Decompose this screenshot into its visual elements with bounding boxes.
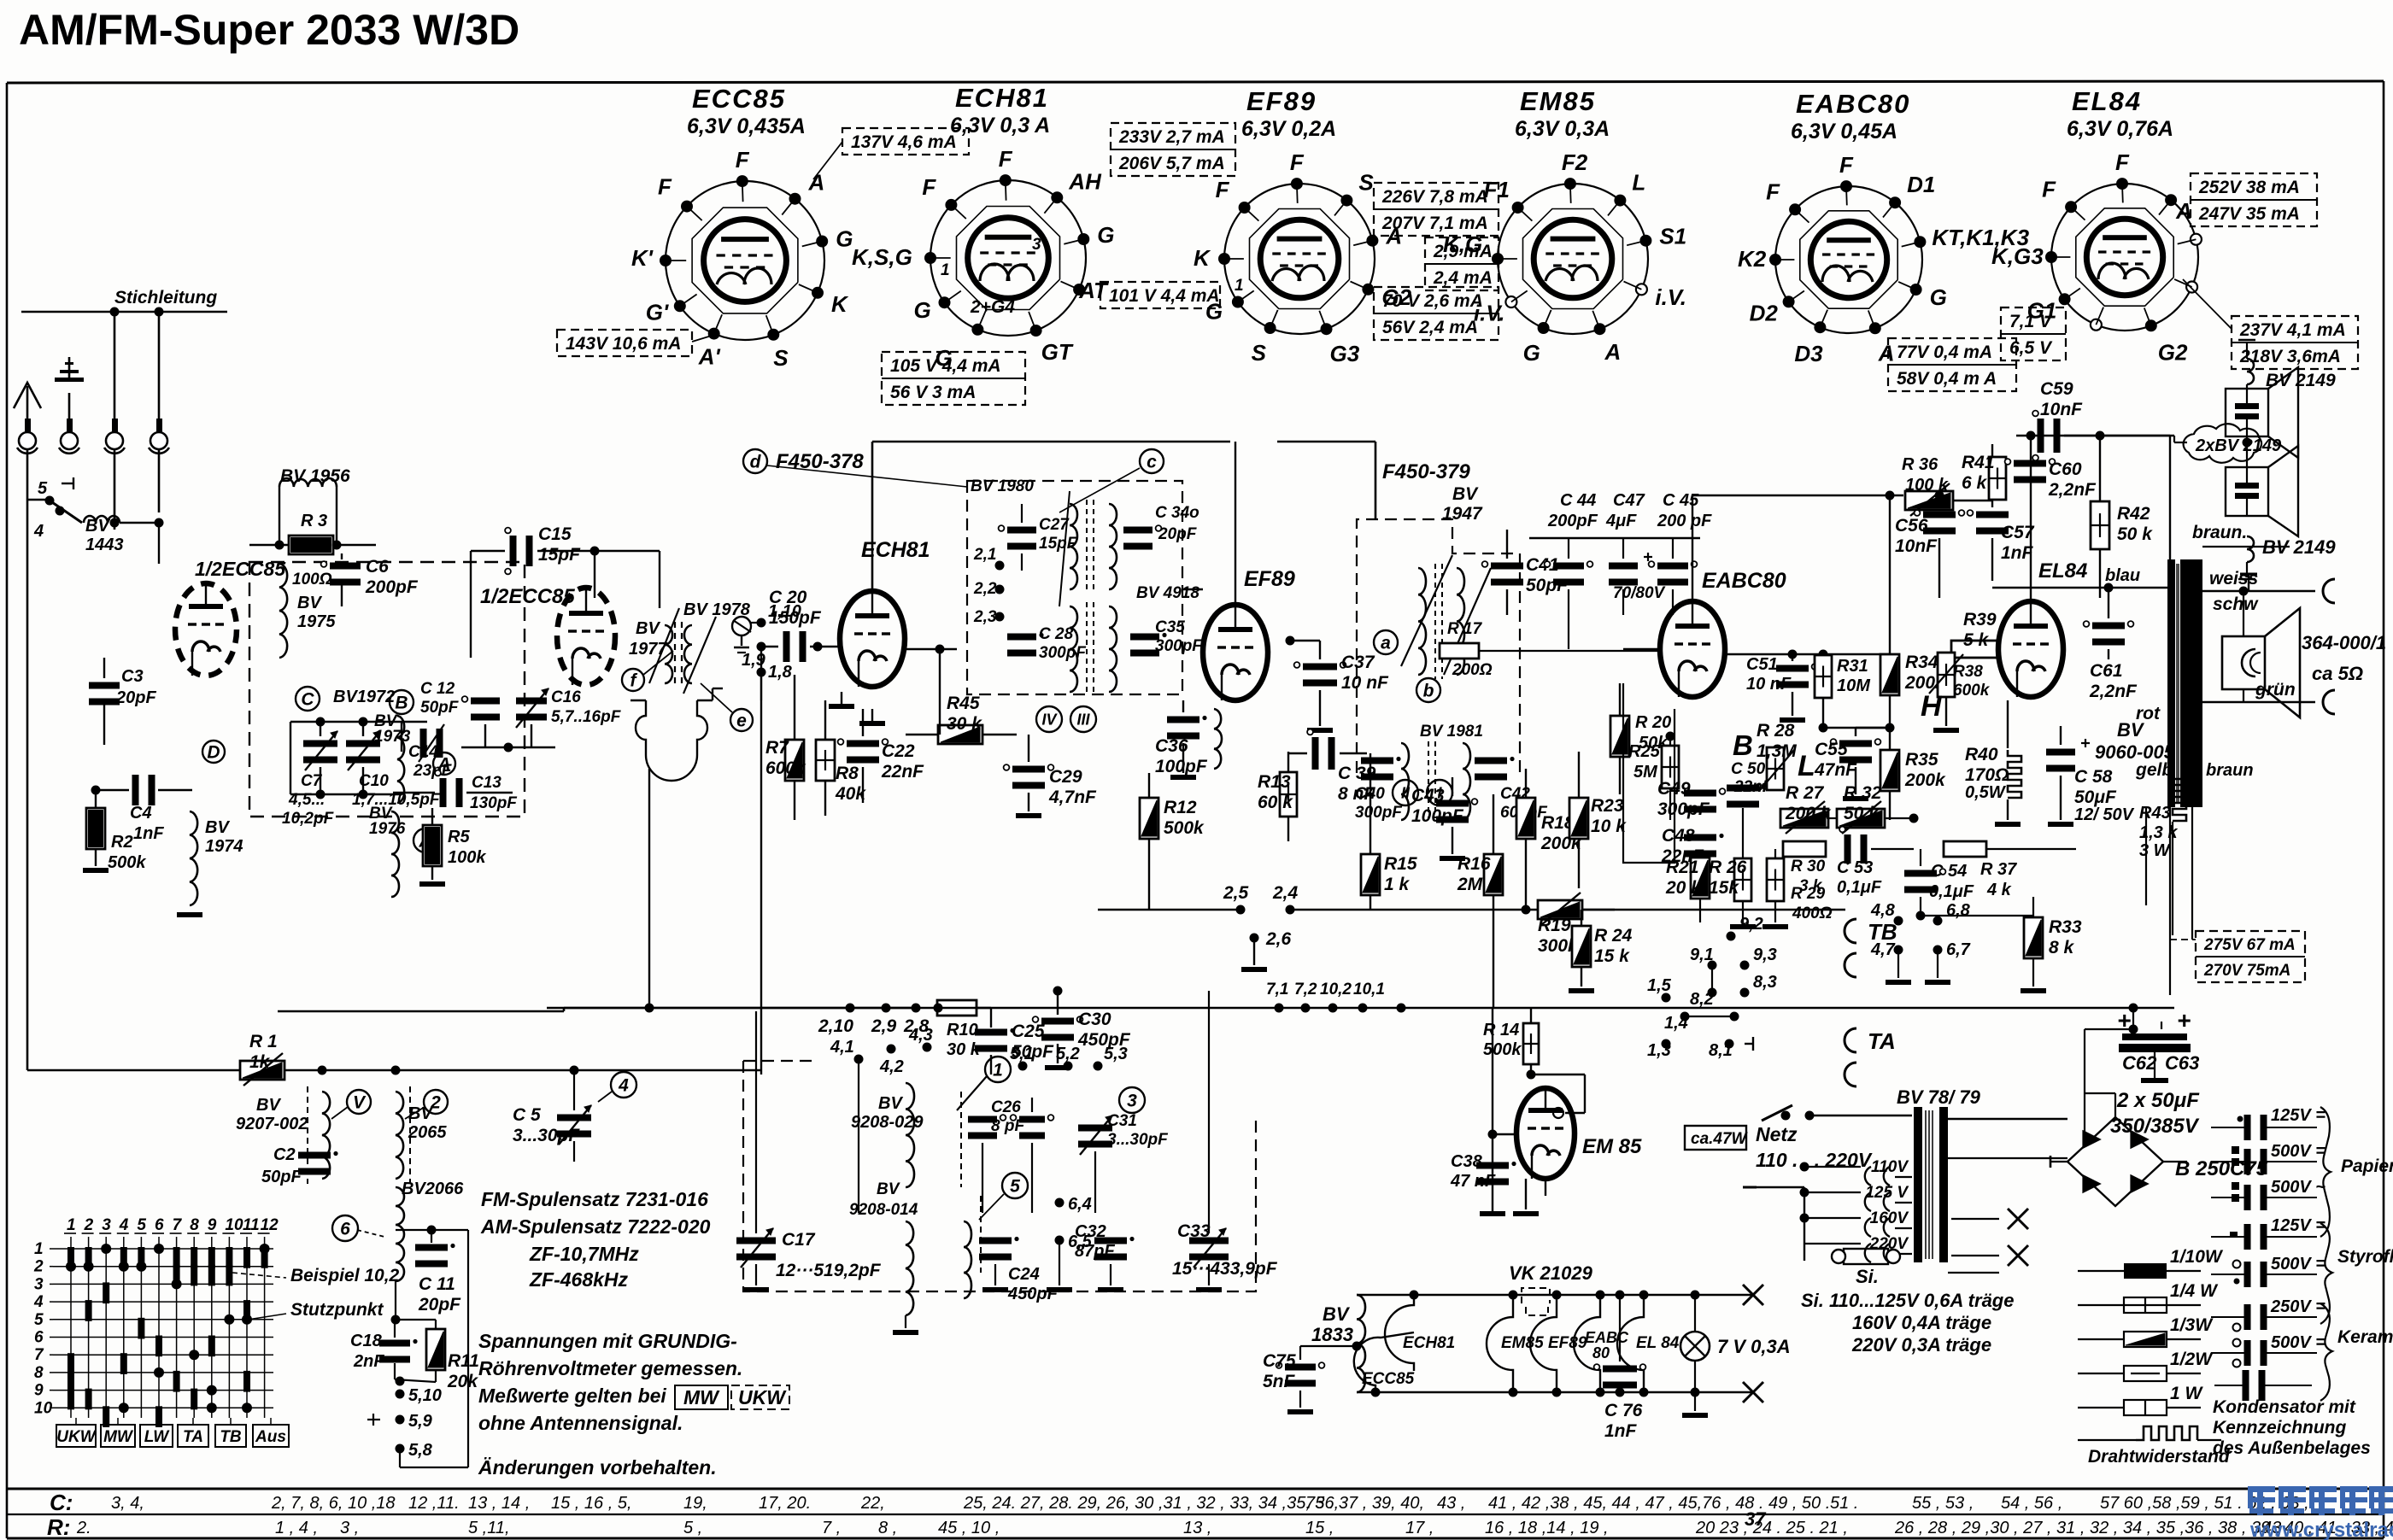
wire jack3/4 down bbox=[114, 449, 116, 530]
svg-text:2065: 2065 bbox=[408, 1123, 447, 1142]
svg-text:2M: 2M bbox=[1457, 875, 1483, 894]
tube EL84 bbox=[1998, 601, 2063, 697]
tube pinout EM85 pin S1 bbox=[1639, 235, 1651, 247]
svg-text:6,3V 0,3 A: 6,3V 0,3 A bbox=[950, 114, 1050, 138]
svg-text:125V =: 125V = bbox=[2271, 1106, 2326, 1125]
resistor R45 30k bbox=[938, 725, 982, 744]
svg-text:5,10: 5,10 bbox=[408, 1386, 442, 1405]
svg-text:C48: C48 bbox=[1662, 826, 1695, 846]
antenna jack 3 bbox=[112, 419, 118, 434]
svg-text:C32: C32 bbox=[1075, 1222, 1106, 1241]
svg-text:B: B bbox=[395, 693, 408, 712]
svg-text:G: G bbox=[1930, 284, 1947, 310]
F450-379 primary coil bbox=[1418, 568, 1426, 675]
X mark heater 2 bbox=[1743, 1382, 1763, 1402]
svg-text:R 20: R 20 bbox=[1635, 713, 1671, 732]
resistor R42 50k bbox=[2091, 501, 2109, 549]
ground antenna symbol bbox=[68, 393, 71, 419]
wire blau bbox=[1992, 587, 2170, 588]
svg-text:2,2nF: 2,2nF bbox=[2089, 682, 2138, 701]
transformer BV1978 core bbox=[674, 622, 676, 688]
svg-text:C 44: C 44 bbox=[1560, 491, 1596, 510]
tube pinout EL84 pin nc bbox=[2191, 234, 2202, 245]
bus to C62 bbox=[2033, 1007, 2174, 1009]
svg-text:R2: R2 bbox=[111, 833, 133, 852]
svg-text:TA: TA bbox=[1868, 1028, 1896, 1054]
svg-text:5: 5 bbox=[1010, 1176, 1020, 1196]
svg-text:220V 0,3A träge: 220V 0,3A träge bbox=[1851, 1334, 1991, 1356]
svg-text:275V 67 mA: 275V 67 mA bbox=[2203, 936, 2296, 954]
tube pinout EF89 pin G2 bbox=[1362, 284, 1374, 296]
svg-text:A: A bbox=[1604, 339, 1622, 365]
svg-text:9: 9 bbox=[208, 1216, 217, 1234]
tube 1/2 ECC85 first half bbox=[175, 583, 237, 676]
svg-text:3: 3 bbox=[102, 1216, 111, 1234]
svg-text:105 V 4,4 mA: 105 V 4,4 mA bbox=[890, 356, 1001, 376]
wire rot bbox=[2145, 807, 2147, 905]
antenna symbol at BV1978 bbox=[732, 617, 751, 635]
svg-text:20 23 , 24 . 25 . 21 ,: 20 23 , 24 . 25 . 21 , bbox=[1695, 1519, 1848, 1537]
svg-text:9208-029: 9208-029 bbox=[851, 1113, 924, 1132]
tube pinout EABC80 pin F bbox=[1789, 203, 1801, 215]
capacitor C58 50uF bbox=[2046, 749, 2075, 756]
capacitor small bbox=[1019, 1116, 1045, 1123]
svg-text:2,10: 2,10 bbox=[818, 1016, 853, 1036]
svg-text:rot: rot bbox=[2136, 704, 2161, 723]
svg-text:12/ 50V: 12/ 50V bbox=[2074, 805, 2135, 824]
resistor R36 100k bbox=[1905, 491, 1953, 510]
svg-text:Styroflex: Styroflex bbox=[2337, 1247, 2393, 1267]
power transformer core bbox=[1914, 1107, 1922, 1262]
tube pinout EL84 pin F bbox=[2065, 201, 2077, 213]
tube pinout ECC85 pin A' bbox=[708, 328, 720, 340]
svg-text:F: F bbox=[2042, 176, 2056, 202]
svg-text:15pF: 15pF bbox=[538, 545, 581, 565]
X mark secondary 1 bbox=[2008, 1209, 2028, 1229]
svg-text:R39: R39 bbox=[1963, 610, 1997, 629]
svg-text:L: L bbox=[1632, 170, 1645, 196]
output coil lower bbox=[636, 700, 707, 781]
svg-text:blau: blau bbox=[2105, 566, 2140, 585]
svg-text:R31: R31 bbox=[1837, 657, 1868, 676]
coil BV9207-002 circled V bbox=[322, 1092, 330, 1179]
svg-text:75 . 37 , 39, 40,: 75 . 37 , 39, 40, bbox=[1305, 1494, 1424, 1513]
antenna jack 4 bbox=[156, 419, 162, 434]
svg-text:C 54: C 54 bbox=[1931, 862, 1967, 881]
svg-text:160V: 160V bbox=[1870, 1209, 1909, 1227]
svg-text:4: 4 bbox=[33, 522, 44, 541]
svg-text:19,: 19, bbox=[683, 1494, 707, 1513]
svg-text:R 1: R 1 bbox=[249, 1032, 278, 1051]
svg-text:EL84: EL84 bbox=[2072, 86, 2142, 116]
bus 7,1 line bbox=[547, 1007, 2174, 1010]
svg-text:200 k: 200 k bbox=[1785, 804, 1832, 823]
svg-text:60 k: 60 k bbox=[1258, 793, 1293, 812]
svg-text:1974: 1974 bbox=[205, 837, 243, 856]
tube pinout EF89 pin F bbox=[1291, 178, 1303, 190]
svg-text:110V: 110V bbox=[1871, 1158, 1909, 1176]
svg-text:Keramik: Keramik bbox=[2337, 1327, 2393, 1347]
tube pinout EM85 pin F2 bbox=[1564, 178, 1576, 190]
svg-text:F: F bbox=[922, 174, 936, 200]
legend brace Papier bbox=[2320, 1107, 2331, 1237]
svg-text:C: C bbox=[301, 689, 314, 709]
resistor R33 8k bbox=[2024, 917, 2043, 958]
svg-text:BV1972: BV1972 bbox=[333, 688, 395, 706]
svg-text:braun: braun bbox=[2206, 761, 2254, 780]
svg-text:8,1: 8,1 bbox=[1709, 1041, 1733, 1060]
svg-text:A: A bbox=[1878, 340, 1895, 366]
terminal 6,8 bbox=[1933, 916, 1943, 926]
legend capacitor Papier 500V= bbox=[2244, 1149, 2251, 1174]
wire EL84 anode top bbox=[2030, 436, 2032, 601]
svg-text:EM85: EM85 bbox=[1520, 86, 1596, 116]
tube pinout ECC85 pin F bbox=[681, 201, 693, 213]
svg-text:Drahtwiderstand: Drahtwiderstand bbox=[2088, 1447, 2231, 1467]
parts table lines bbox=[7, 1488, 2384, 1490]
svg-text:6,3V 0,3A: 6,3V 0,3A bbox=[1515, 117, 1610, 141]
svg-text:UKW: UKW bbox=[738, 1386, 787, 1408]
svg-text:1: 1 bbox=[34, 1240, 44, 1258]
tube pinout EL84 base circle bbox=[2051, 184, 2198, 331]
svg-text:C63: C63 bbox=[2165, 1052, 2199, 1074]
svg-text:C 20: C 20 bbox=[769, 588, 807, 607]
svg-text:6,8: 6,8 bbox=[1946, 901, 1971, 920]
svg-text:1/2ECC85: 1/2ECC85 bbox=[195, 558, 286, 580]
svg-text:2,2: 2,2 bbox=[973, 580, 997, 598]
coil BV1956 bbox=[279, 478, 337, 487]
svg-text:30 k: 30 k bbox=[947, 714, 982, 734]
tube pinout EABC80 pin KT,K1,K3 bbox=[1914, 236, 1926, 248]
svg-text:13 ,: 13 , bbox=[1183, 1519, 1211, 1537]
svg-text:C6: C6 bbox=[366, 557, 389, 577]
tube pinout ECH81 pin G bbox=[1077, 233, 1089, 245]
svg-text:1: 1 bbox=[941, 261, 950, 279]
svg-text:TA: TA bbox=[183, 1428, 203, 1446]
svg-text:R45: R45 bbox=[947, 694, 980, 713]
capacitor C60 2,2nF bbox=[2014, 460, 2046, 467]
capacitor C38 47nF bbox=[1476, 1162, 1509, 1169]
voltage box 77V/58V bbox=[1888, 338, 2016, 391]
tube pinout EM85 pin i.V. bbox=[1636, 284, 1647, 295]
resistor R8 40k bbox=[816, 740, 835, 781]
border frame bbox=[7, 81, 2384, 83]
svg-text:D3: D3 bbox=[1794, 341, 1823, 366]
tap T symbol bbox=[2248, 574, 2249, 591]
svg-text:GT: GT bbox=[1041, 339, 1074, 365]
tube pinout EM85 pin F1 bbox=[1512, 202, 1524, 214]
svg-text:ECH81: ECH81 bbox=[955, 83, 1049, 113]
tube pinout ECH81 pin G bbox=[939, 296, 951, 308]
svg-text:1: 1 bbox=[67, 1216, 76, 1234]
voltage box 252V/247V bbox=[2191, 173, 2317, 226]
svg-text:1: 1 bbox=[993, 1060, 1003, 1080]
svg-text:EM 85: EM 85 bbox=[1582, 1135, 1642, 1158]
capacitor C61 2,2nF bbox=[2092, 623, 2125, 629]
svg-text:4: 4 bbox=[119, 1216, 129, 1234]
heater tap EM85 bbox=[1487, 1295, 1513, 1392]
svg-text:c: c bbox=[1147, 452, 1157, 471]
tube pinout EF89 pin F bbox=[1239, 202, 1251, 214]
terminal 1,8 bbox=[757, 668, 766, 677]
svg-text:G: G bbox=[1205, 299, 1223, 325]
svg-text:schw: schw bbox=[2213, 594, 2259, 614]
svg-text:1/10W: 1/10W bbox=[2170, 1247, 2224, 1267]
heater tap ECC85 bbox=[1354, 1332, 1414, 1392]
terminal 6,7 bbox=[1933, 946, 1943, 955]
heater coil BV1833 bbox=[1357, 1295, 1365, 1392]
svg-text:A: A bbox=[808, 170, 825, 196]
svg-text:4,3: 4,3 bbox=[908, 1026, 933, 1045]
svg-text:R15: R15 bbox=[1384, 854, 1417, 874]
svg-text:500k: 500k bbox=[1164, 818, 1205, 838]
tube pinout ECC85 base circle bbox=[666, 181, 824, 340]
svg-text:6,3V 0,45A: 6,3V 0,45A bbox=[1791, 120, 1897, 143]
svg-text:Netz: Netz bbox=[1756, 1123, 1798, 1145]
svg-text:R42: R42 bbox=[2117, 504, 2150, 524]
svg-text:4,7nF: 4,7nF bbox=[1048, 788, 1097, 807]
svg-text:125V =: 125V = bbox=[2271, 1216, 2326, 1235]
svg-text:ZF-10,7MHz: ZF-10,7MHz bbox=[529, 1243, 639, 1265]
svg-text:5 ,: 5 , bbox=[683, 1519, 702, 1537]
tube pinout EF89 envelope bbox=[1260, 220, 1339, 298]
coil after switch bbox=[84, 516, 120, 523]
tube pinout ECC85 pin S bbox=[767, 329, 779, 341]
svg-text:V: V bbox=[353, 1092, 367, 1112]
svg-text:7,2: 7,2 bbox=[1294, 981, 1317, 998]
svg-text:3: 3 bbox=[1127, 1091, 1137, 1110]
capacitors C62 C63 bbox=[2132, 1008, 2134, 1029]
voltage box 7,1V/6,5V bbox=[2001, 307, 2066, 360]
svg-text:ECH81: ECH81 bbox=[1403, 1334, 1455, 1352]
svg-text:4μF: 4μF bbox=[1605, 512, 1637, 530]
pilot lamp 7V 0,3A bbox=[1680, 1332, 1710, 1361]
svg-text:www.crystalradio.cn: www.crystalradio.cn bbox=[2249, 1519, 2393, 1540]
terminal 2,8 bbox=[912, 1004, 921, 1013]
svg-text:1,3M: 1,3M bbox=[1757, 741, 1797, 761]
legend brace Keramik bbox=[2320, 1303, 2332, 1401]
svg-text:R40: R40 bbox=[1965, 745, 1998, 764]
svg-text:2,9: 2,9 bbox=[871, 1016, 897, 1036]
resistor R25 5M bbox=[1662, 746, 1679, 788]
svg-text:1973: 1973 bbox=[374, 728, 411, 746]
svg-text:R 29: R 29 bbox=[1791, 885, 1826, 903]
svg-text:R34: R34 bbox=[1905, 653, 1938, 672]
svg-text:Kondensator mit: Kondensator mit bbox=[2213, 1397, 2356, 1417]
terminal 5,2 bbox=[1064, 1062, 1073, 1071]
svg-text:R 37: R 37 bbox=[1980, 860, 2017, 879]
svg-text:200 pF: 200 pF bbox=[1657, 512, 1712, 530]
svg-text:EL84: EL84 bbox=[2038, 559, 2087, 583]
svg-text:3 ,: 3 , bbox=[340, 1519, 359, 1537]
svg-text:1975: 1975 bbox=[297, 612, 336, 631]
capacitor C20 150pF bbox=[783, 631, 790, 662]
svg-text:BV: BV bbox=[205, 818, 230, 837]
variable capacitor C7 bbox=[303, 741, 337, 747]
svg-text:10,1: 10,1 bbox=[1353, 981, 1385, 998]
svg-text:2: 2 bbox=[430, 1092, 441, 1112]
svg-text:G2: G2 bbox=[2158, 339, 2188, 365]
wire ECH81 anode to IF bbox=[871, 442, 874, 591]
X mark secondary 2 bbox=[2008, 1245, 2028, 1266]
svg-text:54 , 56 ,: 54 , 56 , bbox=[2001, 1494, 2062, 1513]
svg-text:EL 84: EL 84 bbox=[1636, 1334, 1680, 1352]
resistor R15 1k bbox=[1361, 854, 1380, 895]
legend Drahtwiderstand bbox=[2078, 1439, 2136, 1441]
tube pinout EM85 pin K,G bbox=[1492, 253, 1504, 265]
tube pinout ECH81 pin F bbox=[945, 199, 957, 211]
svg-text:9208-014: 9208-014 bbox=[849, 1201, 918, 1219]
svg-text:R5: R5 bbox=[448, 828, 470, 846]
transformer BV1978 secondary bbox=[684, 625, 692, 683]
tube pinout ECC85 pin G' bbox=[674, 300, 686, 312]
svg-text:BV2066: BV2066 bbox=[402, 1180, 464, 1198]
svg-text:R7: R7 bbox=[765, 738, 789, 758]
ground under BV1974 bbox=[177, 912, 202, 917]
variable capacitor C16 bbox=[516, 698, 547, 705]
terminal 10,1 bbox=[1358, 1004, 1368, 1013]
box around EABC80 cathode bbox=[1623, 683, 1675, 863]
svg-text:1k: 1k bbox=[249, 1052, 271, 1072]
svg-text:51 .: 51 . bbox=[1830, 1494, 1858, 1513]
svg-text:F: F bbox=[1766, 179, 1780, 204]
svg-text:EF89: EF89 bbox=[1548, 1334, 1587, 1352]
resistor R10 30k bbox=[937, 1000, 977, 1016]
svg-text:233V 2,7 mA: 233V 2,7 mA bbox=[1118, 127, 1225, 147]
wire C15 to tube bbox=[594, 551, 595, 598]
transformer primary wire bbox=[2169, 436, 2171, 559]
svg-text:2,4 mA: 2,4 mA bbox=[1433, 268, 1493, 288]
svg-text:C29: C29 bbox=[1049, 767, 1082, 787]
svg-text:1nF: 1nF bbox=[133, 824, 164, 843]
svg-text:K: K bbox=[1194, 245, 1211, 271]
svg-text:5,1: 5,1 bbox=[1010, 1045, 1034, 1063]
svg-text:15 k: 15 k bbox=[1594, 946, 1630, 966]
svg-text:Papier: Papier bbox=[2341, 1156, 2393, 1176]
svg-text:Stichleitung: Stichleitung bbox=[114, 288, 217, 307]
tube pinout ECH81 pin GT bbox=[1030, 325, 1042, 337]
tube pinout EF89 pin S bbox=[1340, 195, 1352, 207]
terminal 4,3 bbox=[923, 1043, 932, 1052]
trimmer C12 50pF bbox=[420, 729, 427, 758]
svg-text:7: 7 bbox=[34, 1346, 44, 1364]
resistor R30 3k bbox=[1783, 841, 1826, 857]
circled D bbox=[202, 741, 225, 763]
resistor R35 200k bbox=[1880, 750, 1899, 791]
svg-text:C37: C37 bbox=[1341, 653, 1375, 672]
resistor R41 6k bbox=[1989, 457, 2006, 500]
svg-text:F450-378: F450-378 bbox=[776, 450, 864, 473]
circled I bbox=[1427, 780, 1452, 805]
svg-text:C 12: C 12 bbox=[420, 680, 455, 698]
svg-text:FM-Spulensatz 7231-016: FM-Spulensatz 7231-016 bbox=[481, 1188, 708, 1210]
svg-text:H: H bbox=[1921, 690, 1943, 723]
svg-text:6,4: 6,4 bbox=[1068, 1195, 1092, 1214]
terminal 7,1 bbox=[1275, 1004, 1284, 1013]
terminal 6,4 bbox=[1055, 1198, 1065, 1208]
svg-text:5,3: 5,3 bbox=[1104, 1045, 1128, 1063]
capacitor C14 23pF bbox=[471, 698, 500, 705]
svg-text:8,2: 8,2 bbox=[1690, 990, 1714, 1009]
svg-text:C3: C3 bbox=[121, 667, 144, 686]
resistor R20 50k bbox=[1610, 716, 1629, 757]
svg-text:7 V 0,3A: 7 V 0,3A bbox=[1717, 1336, 1791, 1357]
svg-text:9: 9 bbox=[34, 1382, 44, 1400]
svg-text:Aus: Aus bbox=[255, 1428, 286, 1446]
resistor R3 100ohm bbox=[289, 536, 333, 554]
svg-text:R16: R16 bbox=[1458, 854, 1491, 874]
svg-text:16 , 18 ,14 , 19 ,: 16 , 18 ,14 , 19 , bbox=[1485, 1519, 1609, 1537]
wire IF to EF89 grid bbox=[1182, 588, 1203, 590]
heater chain bottom wire bbox=[1357, 1391, 1753, 1393]
secondary wires bbox=[1948, 1118, 2067, 1120]
AM osc coil BV9208-029 bbox=[906, 1083, 914, 1187]
svg-text:252V 38 mA: 252V 38 mA bbox=[2198, 178, 2300, 197]
svg-text:C4: C4 bbox=[130, 804, 152, 823]
heater chain top wire bbox=[1357, 1294, 1753, 1296]
svg-text:77V 0,4 mA: 77V 0,4 mA bbox=[1897, 343, 1992, 362]
svg-text:C 50: C 50 bbox=[1731, 760, 1766, 778]
svg-text:0,1μF: 0,1μF bbox=[1929, 882, 1974, 901]
svg-text:ohne Antennensignal.: ohne Antennensignal. bbox=[478, 1412, 683, 1434]
svg-text:6: 6 bbox=[34, 1329, 44, 1347]
tube pinout EM85 pin L bbox=[1614, 195, 1626, 207]
svg-text:100pF: 100pF bbox=[1155, 757, 1208, 776]
svg-text:VK 21029: VK 21029 bbox=[1509, 1262, 1593, 1284]
voltage box 237V/218V bbox=[2232, 316, 2358, 369]
tube pinout EM85 pin G bbox=[1538, 322, 1550, 334]
ca 47W box bbox=[1685, 1126, 1746, 1150]
tube pinout EABC80 pin D1 bbox=[1889, 196, 1901, 208]
capacitor C11 20pF bbox=[415, 1244, 448, 1251]
resistor R24 15k bbox=[1572, 926, 1591, 967]
tube pinout EABC80 pin K2 bbox=[1769, 254, 1781, 266]
svg-text:10 nF: 10 nF bbox=[1341, 673, 1389, 693]
svg-text:56V 2,4 mA: 56V 2,4 mA bbox=[1382, 318, 1478, 337]
band label boxes bbox=[56, 1425, 96, 1447]
svg-text:47nF: 47nF bbox=[1814, 760, 1857, 780]
terminal 5,10 bbox=[396, 1390, 405, 1399]
resistor R37 4k bbox=[1944, 841, 1986, 857]
svg-text:C38: C38 bbox=[1451, 1152, 1483, 1171]
tube pinout EL84 pin nc bbox=[2186, 282, 2197, 293]
svg-text:1977: 1977 bbox=[629, 640, 667, 659]
svg-text:10M: 10M bbox=[1837, 676, 1871, 695]
wire from bridge to C62 bbox=[2085, 1028, 2133, 1030]
svg-text:12···519,2pF: 12···519,2pF bbox=[776, 1261, 882, 1280]
svg-text:1,3: 1,3 bbox=[1647, 1041, 1671, 1060]
capacitor C39 8nF bbox=[1312, 737, 1319, 770]
coil EF89 cathode bbox=[1214, 709, 1222, 769]
tube pinout EF89 pin G3 bbox=[1321, 323, 1333, 335]
svg-text:R33: R33 bbox=[2049, 917, 2082, 937]
legend resistor 1/10W bbox=[2078, 1270, 2201, 1272]
svg-text:R:: R: bbox=[47, 1514, 70, 1540]
svg-text:Stutzpunkt: Stutzpunkt bbox=[290, 1300, 384, 1320]
svg-text:F: F bbox=[1839, 152, 1854, 178]
circled 4 trimmer bbox=[611, 1072, 636, 1098]
svg-text:R11: R11 bbox=[448, 1351, 479, 1371]
svg-text:70 V 2,6 mA: 70 V 2,6 mA bbox=[1382, 291, 1483, 311]
svg-text:R41: R41 bbox=[1962, 453, 1995, 472]
svg-text:R 3: R 3 bbox=[301, 512, 327, 530]
capacitor C4 1nF bbox=[132, 775, 139, 805]
svg-text:10,2pF: 10,2pF bbox=[282, 810, 335, 828]
svg-text:300pF: 300pF bbox=[1155, 637, 1203, 655]
svg-text:2nF: 2nF bbox=[353, 1352, 384, 1371]
svg-text:8: 8 bbox=[190, 1216, 199, 1234]
svg-text:6,3V 0,76A: 6,3V 0,76A bbox=[2067, 117, 2173, 141]
